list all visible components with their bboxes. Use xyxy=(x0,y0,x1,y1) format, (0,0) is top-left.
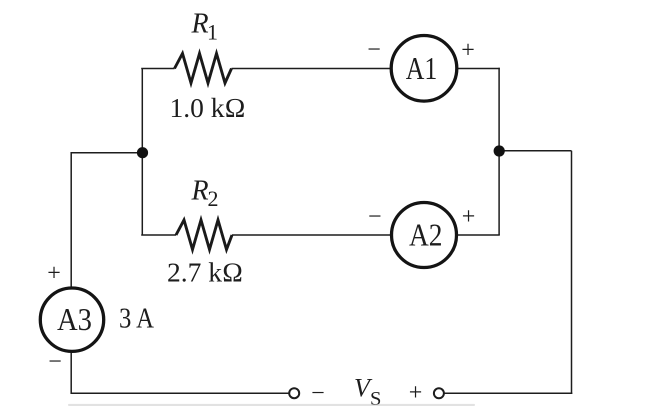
node B junction dot right xyxy=(494,145,505,156)
ammeter A2 xyxy=(392,203,457,268)
svg-text:S: S xyxy=(370,388,381,410)
wire top horizontal left segment xyxy=(141,68,174,70)
svg-text:−: − xyxy=(311,381,325,407)
wire bottom left segment xyxy=(71,392,290,394)
svg-text:−: − xyxy=(367,37,381,63)
svg-text:3 A: 3 A xyxy=(119,303,154,335)
svg-text:A2: A2 xyxy=(409,217,443,253)
svg-text:+: + xyxy=(461,38,475,64)
wire top horizontal middle segment xyxy=(232,68,392,70)
wire mid vertical between nodes xyxy=(141,153,143,235)
svg-text:+: + xyxy=(409,380,423,406)
resistor R1 zigzag xyxy=(175,54,232,84)
ammeter A1 xyxy=(391,36,457,102)
scan artifact faint line bottom xyxy=(68,404,475,406)
wire A2 right segment xyxy=(457,234,500,236)
resistor R2 zigzag xyxy=(176,220,232,250)
svg-text:A1: A1 xyxy=(406,50,438,86)
svg-text:1: 1 xyxy=(207,20,218,45)
svg-text:R: R xyxy=(191,175,209,206)
source terminal open circle left xyxy=(289,388,299,398)
svg-text:+: + xyxy=(462,204,476,230)
svg-text:+: + xyxy=(47,261,61,287)
svg-text:−: − xyxy=(48,349,62,375)
svg-text:A3: A3 xyxy=(57,301,92,337)
svg-text:R: R xyxy=(191,9,209,40)
wire R2 branch left segment xyxy=(141,234,176,236)
wire top horizontal right segment xyxy=(457,68,500,70)
wire node A to left horizontal xyxy=(71,152,143,154)
node A junction dot left xyxy=(137,147,148,158)
svg-text:−: − xyxy=(368,204,382,230)
wire bottom right segment xyxy=(444,392,572,394)
wire R2 branch middle segment xyxy=(232,234,391,236)
source terminal open circle right xyxy=(434,388,444,398)
wire node junction to outer right xyxy=(499,150,571,152)
svg-text:2: 2 xyxy=(208,186,219,211)
svg-text:1.0 kΩ: 1.0 kΩ xyxy=(170,92,246,123)
wire right outer vertical xyxy=(571,151,573,394)
wire right branch vertical xyxy=(498,68,500,235)
wire left outer vertical lower xyxy=(70,352,72,395)
ammeter A3 xyxy=(40,288,103,351)
svg-text:2.7 kΩ: 2.7 kΩ xyxy=(167,257,243,288)
wire top-left vertical xyxy=(141,69,143,153)
wire left outer vertical upper xyxy=(70,152,72,288)
